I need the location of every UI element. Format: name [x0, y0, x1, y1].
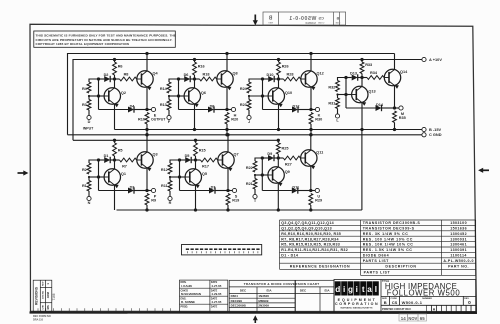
- svg-text:Q10: Q10: [285, 91, 292, 95]
- transistor Q9: [268, 167, 290, 186]
- wire +10V collector rail (upper): [68, 54, 395, 135]
- transistor Q6: [184, 88, 206, 107]
- svg-text:D8: D8: [210, 104, 215, 108]
- svg-text:R3: R3: [82, 103, 87, 107]
- wire base node: [88, 175, 104, 178]
- svg-text:R34: R34: [370, 71, 378, 75]
- resistor R13: [160, 96, 171, 115]
- wire clamp vertical: [344, 76, 347, 108]
- diode D7: [180, 185, 229, 193]
- svg-text:R29: R29: [315, 199, 322, 203]
- wire Q7 emitter: [227, 168, 229, 191]
- resistor R10: [138, 113, 149, 137]
- svg-text:B: B: [336, 16, 339, 21]
- svg-text:TRANSISTOR DEC999-S: TRANSISTOR DEC999-S: [363, 227, 415, 231]
- svg-text:A-PL-W500-0-0: A-PL-W500-0-0: [443, 259, 474, 263]
- wire Q11 emitter: [310, 166, 312, 191]
- diode D3: [99, 185, 148, 193]
- svg-text:R12: R12: [161, 168, 168, 172]
- svg-text:R22: R22: [246, 166, 253, 170]
- svg-text:DEC: DEC: [240, 289, 247, 293]
- svg-text:CS: CS: [318, 16, 324, 21]
- svg-text:2N3009: 2N3009: [258, 304, 269, 308]
- input terminal T: [253, 194, 257, 203]
- svg-text:DIODE D664: DIODE D664: [363, 254, 389, 258]
- diode D10: [263, 73, 279, 82]
- input terminal J: [247, 115, 251, 124]
- svg-text:DESCRIPTION: DESCRIPTION: [385, 265, 416, 269]
- svg-text:Q9: Q9: [285, 170, 290, 174]
- diode D1: [99, 154, 115, 163]
- svg-text:i: i: [343, 285, 345, 294]
- follower cell cC: [246, 133, 323, 212]
- wire clamp vertical: [178, 158, 181, 190]
- svg-text:1100114: 1100114: [450, 254, 466, 258]
- svg-text:d: d: [335, 285, 340, 294]
- svg-text:FOLLOWER W500: FOLLOWER W500: [387, 289, 461, 298]
- size/code/number/rev row: [382, 298, 471, 306]
- diode D12: [263, 104, 312, 112]
- output terminal P: [145, 188, 156, 198]
- svg-text:R6: R6: [118, 65, 123, 69]
- svg-text:Q1: Q1: [121, 172, 126, 176]
- svg-text:D14: D14: [376, 103, 384, 107]
- svg-text:D2: D2: [104, 73, 109, 77]
- resistor R8: [115, 73, 137, 81]
- printed circuit rev row: [382, 305, 476, 312]
- wire base node: [88, 94, 104, 97]
- svg-text:W500-0-1: W500-0-1: [402, 300, 423, 305]
- output terminal S: [226, 188, 237, 198]
- parts list table: [280, 220, 476, 275]
- diode D2: [99, 73, 115, 82]
- resistor R11: [161, 177, 172, 196]
- svg-text:COPYRIGHT 1965 BY DIGITAL EQUI: COPYRIGHT 1965 BY DIGITAL EQUIPMENT CORP…: [36, 42, 129, 46]
- right alignment arrow: [478, 168, 489, 173]
- svg-text:DEC: DEC: [300, 289, 307, 293]
- signature block: [180, 280, 228, 312]
- wire clamp vertical: [97, 77, 100, 109]
- diode D9: [262, 152, 278, 161]
- svg-text:REV.: REV.: [464, 298, 469, 300]
- svg-text:Q3,Q4,Q7,Q8,Q11,Q12,Q14: Q3,Q4,Q7,Q8,Q11,Q12,Q14: [281, 221, 334, 225]
- svg-text:RES. 1.5K 1/4W 5% CC: RES. 1.5K 1/4W 5% CC: [363, 248, 413, 252]
- diode D11: [262, 185, 311, 193]
- svg-text:R35: R35: [399, 116, 406, 120]
- svg-text:R7, R8,R17,R18,R27,R28,R34: R7, R8,R17,R18,R27,R28,R34: [281, 237, 338, 241]
- svg-text:CIRCUITS ARE PROPRIETARY IN NA: CIRCUITS ARE PROPRIETARY IN NATURE AND S…: [36, 38, 173, 42]
- svg-text:R14: R14: [160, 87, 168, 91]
- svg-text:R5: R5: [118, 149, 123, 153]
- wire base node: [168, 94, 184, 97]
- svg-text:R32: R32: [328, 86, 335, 90]
- svg-text:R8: R8: [124, 73, 129, 77]
- wire Q4 collector: [145, 52, 148, 71]
- svg-text:REV: REV: [43, 281, 45, 286]
- svg-text:R18: R18: [203, 73, 210, 77]
- svg-text:DEC999: DEC999: [231, 299, 243, 303]
- svg-text:R19: R19: [232, 199, 239, 203]
- wire Q12 emitter: [310, 87, 312, 110]
- svg-text:R28: R28: [287, 73, 294, 77]
- diode D6: [179, 73, 195, 82]
- input terminal D: [83, 115, 94, 130]
- svg-text:R13: R13: [160, 103, 167, 107]
- resistor R30: [309, 113, 322, 137]
- svg-text:D7: D7: [211, 185, 216, 189]
- svg-text:REVISIONS: REVISIONS: [35, 286, 39, 305]
- svg-text:TRANSISTOR & DIODE CONVERSI: TRANSISTOR & DIODE CONVERSION CHART: [244, 282, 320, 286]
- resistor R12: [161, 160, 180, 174]
- svg-text:g: g: [348, 285, 353, 294]
- svg-text:R5, R9,R15,R19,R25, R29,R33: R5, R9,R15,R19,R25, R29,R33: [281, 243, 340, 247]
- output terminal K: [309, 107, 320, 117]
- svg-text:R21: R21: [246, 182, 253, 186]
- wire B -15V rail: [115, 129, 422, 131]
- resistor R29: [309, 194, 322, 212]
- svg-text:Q12: Q12: [317, 72, 324, 76]
- wire clamp vertical: [177, 77, 180, 109]
- svg-text:SIZE: SIZE: [335, 23, 340, 25]
- wire Q3 collector: [145, 133, 148, 152]
- svg-text:14: 14: [401, 316, 406, 321]
- resistor R17: [196, 158, 218, 168]
- wire Q12 collector: [309, 52, 312, 71]
- diode D5: [180, 154, 196, 163]
- svg-text:1N3606: 1N3606: [258, 294, 269, 298]
- diode D13: [346, 71, 362, 80]
- wire -15V rail bottom row: [117, 209, 362, 211]
- svg-text:R23: R23: [240, 103, 247, 107]
- svg-text:R17: R17: [202, 165, 209, 169]
- wire Q1 collector: [114, 160, 116, 169]
- svg-text:1300452: 1300452: [450, 232, 467, 236]
- resistor R5: [113, 139, 123, 162]
- svg-text:R: R: [169, 201, 172, 205]
- svg-text:CS: CS: [392, 300, 398, 305]
- diode D14: [346, 103, 395, 111]
- resistor R25: [276, 139, 288, 160]
- wire C GND rail: [68, 134, 422, 136]
- resistor R4: [82, 79, 99, 93]
- svg-text:R27: R27: [285, 163, 292, 167]
- svg-text:PRINTED CIRCUIT REV.: PRINTED CIRCUIT REV.: [382, 307, 411, 311]
- transistor Q5: [185, 169, 207, 188]
- svg-text:D1 - D14: D1 - D14: [281, 254, 298, 258]
- transistor Q8: [217, 71, 238, 90]
- svg-text:PARTS LIST: PARTS LIST: [363, 259, 389, 263]
- svg-text:A +10V: A +10V: [429, 57, 442, 62]
- wire +10V rail to terminal A: [73, 60, 422, 141]
- revisions block: [33, 280, 52, 312]
- wire clamp vertical: [261, 77, 264, 109]
- output terminal H: [225, 107, 236, 117]
- svg-text:R15: R15: [199, 149, 206, 153]
- wire Q5 collector: [195, 160, 197, 169]
- svg-text:R1: R1: [82, 184, 87, 188]
- svg-text:EIA: EIA: [324, 289, 330, 293]
- svg-text:t: t: [362, 285, 365, 294]
- svg-text:R20: R20: [231, 118, 238, 122]
- terminal B -15V: [422, 127, 442, 132]
- svg-text:R1-R4,R11-R14,R21-R24,R31, R32: R1-R4,R11-R14,R21-R24,R31, R32: [281, 248, 348, 252]
- form number note: [33, 315, 51, 321]
- wire Q1 emitter: [114, 185, 116, 210]
- svg-text:C O R P O R A T I O N: C O R P O R A T I O N: [335, 302, 378, 306]
- svg-text:4-27-65: 4-27-65: [211, 284, 221, 288]
- resistor R28: [279, 73, 301, 81]
- svg-text:PROD.: PROD.: [181, 305, 189, 308]
- resistor R3: [82, 96, 91, 115]
- svg-text:REV: REV: [268, 23, 273, 25]
- input terminal F: [167, 115, 171, 124]
- svg-text:R33: R33: [365, 63, 372, 67]
- svg-text:R16: R16: [198, 65, 205, 69]
- svg-text:RES. 10K 1/4W 10% CC: RES. 10K 1/4W 10% CC: [363, 243, 414, 247]
- svg-text:M.SILVERMAN: M.SILVERMAN: [181, 292, 201, 296]
- resistor R22: [246, 158, 262, 172]
- resistor R20: [225, 113, 238, 137]
- svg-text:1300031: 1300031: [450, 237, 467, 241]
- svg-text:65: 65: [420, 316, 425, 321]
- svg-text:PART NO.: PART NO.: [448, 265, 469, 269]
- output terminal E: [145, 107, 166, 121]
- resistor R21: [246, 175, 257, 194]
- svg-text:B: B: [268, 16, 272, 22]
- resistor R33: [360, 58, 372, 79]
- resistor R19: [226, 194, 239, 212]
- wire Q8 emitter: [226, 87, 228, 110]
- svg-text:OUTPUT: OUTPUT: [151, 117, 166, 121]
- svg-text:i: i: [356, 285, 358, 294]
- wire Q13 collector: [361, 78, 363, 87]
- wire clamp vertical: [261, 156, 264, 190]
- svg-text:PARTS LIST: PARTS LIST: [364, 271, 391, 275]
- svg-text:NUMBER: NUMBER: [305, 22, 316, 25]
- svg-text:B: B: [384, 300, 387, 305]
- svg-text:Q6: Q6: [201, 91, 206, 95]
- terminal C GND: [422, 132, 442, 137]
- svg-text:R24: R24: [240, 87, 248, 91]
- wire Q7 collector: [226, 133, 229, 152]
- edge connector: [182, 245, 262, 255]
- svg-text:REFERENCE DESIGNATION: REFERENCE DESIGNATION: [290, 265, 350, 269]
- DEC digital logo: [335, 281, 379, 309]
- svg-text:1300391: 1300391: [450, 248, 467, 252]
- wire Q11 collector: [309, 133, 312, 150]
- resistor R34: [362, 71, 384, 79]
- svg-text:R26: R26: [282, 65, 289, 69]
- resistor R26: [277, 58, 289, 81]
- svg-text:l: l: [375, 285, 377, 294]
- resistor R1: [82, 177, 91, 196]
- wire Q10 collector: [278, 79, 280, 88]
- svg-text:MAYNARD, MASSACHUSETTS: MAYNARD, MASSACHUSETTS: [341, 306, 373, 309]
- svg-text:1501636: 1501636: [450, 227, 467, 231]
- resistor R27: [278, 156, 300, 166]
- input terminal R: [168, 196, 172, 205]
- resistor R32: [328, 78, 346, 92]
- wire Q14 collector: [394, 54, 396, 70]
- wire base node: [169, 175, 185, 178]
- transistor Q10: [268, 88, 292, 107]
- svg-text:D3: D3: [130, 185, 135, 189]
- follower cell c1: [82, 52, 166, 137]
- mirrored title strip (show-through): [263, 12, 346, 25]
- wire Q10 emitter: [277, 104, 280, 131]
- follower cell c3: [240, 52, 324, 137]
- svg-text:TRANSISTOR DEC3009B-S: TRANSISTOR DEC3009B-S: [363, 221, 421, 225]
- resistor R23: [240, 96, 251, 115]
- svg-text:a: a: [367, 285, 372, 294]
- svg-text:RES. 3K 1/4W 5% CC: RES. 3K 1/4W 5% CC: [363, 232, 409, 236]
- terminal A +10V: [422, 57, 442, 62]
- svg-text:D: D: [88, 120, 91, 124]
- wire Q8 collector: [225, 52, 228, 71]
- svg-text:C GND: C GND: [429, 132, 442, 137]
- svg-text:DATE: DATE: [211, 305, 218, 308]
- wire base node: [336, 93, 351, 96]
- wire Q9 collector: [277, 158, 279, 167]
- svg-text:CODE: CODE: [318, 23, 325, 25]
- resistor R6: [113, 58, 123, 81]
- wire Q6 emitter: [193, 104, 196, 131]
- svg-text:N: N: [88, 201, 91, 205]
- wire Q4 emitter: [146, 87, 148, 110]
- svg-text:1300461: 1300461: [450, 243, 467, 247]
- transistor Q7: [218, 152, 239, 171]
- svg-text:Q11: Q11: [316, 151, 323, 155]
- svg-text:R6,R10,R16,R20,R26,R30, R35: R6,R10,R16,R20,R26,R30, R35: [281, 232, 341, 236]
- top alignment arrow: [253, 15, 258, 26]
- wire +10V feed rail bottom row: [73, 139, 280, 141]
- wire Q5 emitter: [194, 185, 197, 212]
- diode D4: [99, 104, 148, 112]
- svg-text:R9: R9: [151, 199, 156, 203]
- transistor Q12: [301, 71, 324, 90]
- svg-text:CHG NO: CHG NO: [43, 290, 45, 299]
- svg-text:7166: 7166: [52, 293, 56, 300]
- transistor & diode conversion chart: [229, 280, 334, 312]
- resistor R15: [194, 139, 206, 162]
- date stamp: [399, 314, 427, 321]
- wire base node: [248, 94, 268, 97]
- svg-text:J: J: [248, 120, 250, 124]
- svg-text:R10: R10: [138, 118, 145, 122]
- wire Q13 emitter: [360, 102, 363, 131]
- wire Q2 emitter: [114, 104, 116, 130]
- svg-text:RES. 100 1/4W 10% CC: RES. 100 1/4W 10% CC: [363, 237, 413, 241]
- svg-text:R30: R30: [315, 118, 322, 122]
- svg-text:Q4: Q4: [153, 72, 159, 76]
- svg-text:I. KAHN: I. KAHN: [181, 284, 192, 288]
- svg-text:Q14: Q14: [400, 70, 408, 74]
- svg-text:1503100: 1503100: [450, 221, 467, 225]
- svg-text:D11: D11: [292, 185, 299, 189]
- svg-text:D664: D664: [231, 294, 239, 298]
- svg-text:MM999: MM999: [258, 299, 268, 303]
- follower cell c2: [160, 52, 238, 137]
- svg-text:Q5: Q5: [202, 172, 207, 176]
- svg-text:R2: R2: [82, 168, 87, 172]
- svg-text:Q2: Q2: [121, 91, 126, 95]
- resistor R18: [195, 73, 217, 81]
- svg-text:D12: D12: [293, 104, 300, 108]
- follower cell cB: [161, 133, 239, 212]
- resistor R7: [115, 158, 137, 168]
- transistor Q1: [104, 169, 126, 188]
- wire base node: [254, 173, 268, 176]
- wire Q2 collector: [114, 79, 116, 88]
- svg-text:R11: R11: [161, 184, 168, 188]
- svg-text:EIA: EIA: [266, 289, 272, 293]
- transistor Q14: [384, 69, 408, 88]
- transistor Q2: [104, 88, 126, 107]
- wire Q6 collector: [194, 79, 196, 88]
- input terminal N: [87, 196, 91, 205]
- svg-text:4638: 4638: [46, 291, 50, 298]
- transistor Q4: [137, 71, 159, 90]
- svg-text:R. SONNE: R. SONNE: [181, 300, 195, 304]
- resistor R35: [393, 111, 406, 131]
- diode D8: [179, 104, 228, 112]
- svg-text:D1: D1: [104, 154, 109, 158]
- wire riser bottom rail to B rail: [361, 130, 363, 211]
- svg-text:DRA 110: DRA 110: [33, 318, 44, 321]
- resistor R2: [82, 160, 99, 174]
- svg-text:INPUT: INPUT: [83, 127, 94, 131]
- resistor R16: [193, 58, 205, 81]
- transistor Q11: [301, 150, 324, 169]
- svg-text:MS: MS: [46, 305, 50, 309]
- title block: [334, 280, 476, 313]
- transistor Q3: [137, 152, 158, 171]
- svg-text:R25: R25: [282, 147, 289, 151]
- output terminal U: [309, 188, 320, 198]
- svg-text:D13: D13: [350, 71, 357, 75]
- svg-text:Q13: Q13: [368, 90, 375, 94]
- wire Q9 emitter: [277, 183, 280, 212]
- wire Q14 emitter: [394, 85, 396, 108]
- disclaimer note box: [34, 31, 176, 47]
- svg-text:NUMBER: NUMBER: [422, 298, 432, 300]
- svg-text:D9: D9: [267, 152, 272, 156]
- title text: [382, 279, 460, 297]
- svg-text:R31: R31: [328, 102, 335, 106]
- svg-text:D5: D5: [185, 154, 190, 158]
- svg-text:B -15V: B -15V: [429, 127, 442, 132]
- follower cell cA: [82, 133, 158, 212]
- follower cell c4: [328, 54, 408, 132]
- resistor R9: [145, 194, 156, 212]
- svg-text:D10: D10: [267, 73, 274, 77]
- svg-text:R7: R7: [122, 165, 127, 169]
- svg-text:4-27-65: 4-27-65: [211, 300, 221, 304]
- resistor R14: [160, 79, 179, 93]
- output terminal M: [393, 106, 404, 116]
- wire Q3 emitter: [146, 168, 148, 191]
- svg-text:Q1,Q2,Q5,Q6,Q9,Q10,Q13: Q1,Q2,Q5,Q6,Q9,Q10,Q13: [281, 227, 332, 231]
- svg-text:Q7: Q7: [234, 153, 239, 157]
- svg-text:D6: D6: [184, 73, 189, 77]
- svg-text:DEC3009B: DEC3009B: [231, 304, 247, 308]
- svg-text:NOV: NOV: [408, 316, 417, 321]
- svg-text:CHK: CHK: [43, 305, 45, 310]
- resistor R24: [240, 79, 263, 93]
- svg-text:Q8: Q8: [233, 72, 238, 76]
- transistor Q13: [352, 86, 376, 105]
- bottom alignment arrow: [253, 315, 258, 323]
